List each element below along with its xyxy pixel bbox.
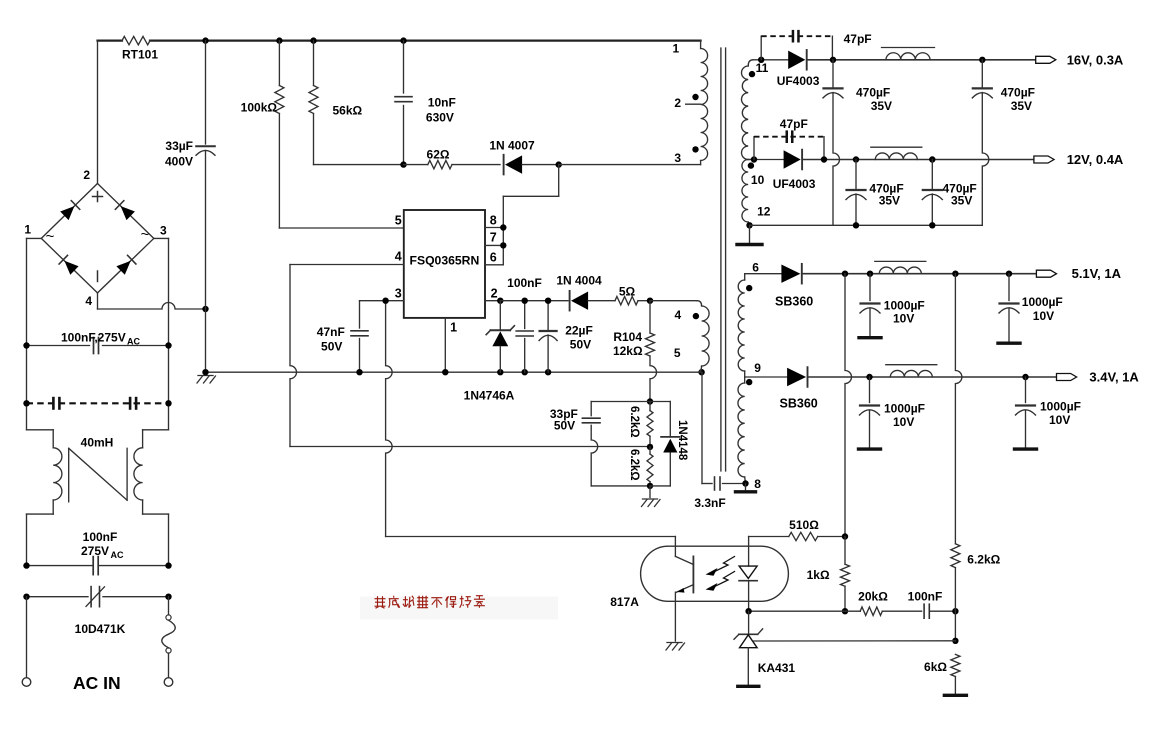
svg-text:50V: 50V [570, 338, 591, 352]
svg-text:35V: 35V [879, 194, 900, 208]
svg-text:817A: 817A [610, 595, 639, 609]
wire pin4 feedback [290, 265, 650, 447]
capacitor 100nF feedback [908, 590, 956, 619]
pin 7 stub [485, 231, 506, 249]
svg-text:6: 6 [490, 251, 497, 265]
resistor RT101 [122, 36, 158, 61]
terminal AC left [22, 678, 31, 687]
svg-text:5Ω: 5Ω [619, 285, 636, 299]
svg-text:6.2kΩ: 6.2kΩ [628, 449, 640, 481]
junction node pin4-aux [647, 298, 653, 304]
resistor 5R [615, 285, 650, 305]
svg-text:4: 4 [675, 308, 682, 322]
winding secondary pins6-9-8 [738, 261, 761, 491]
capacitor 47nF 50V [317, 301, 368, 373]
wire KA431 ref [754, 640, 956, 642]
svg-text:1N 4007: 1N 4007 [489, 139, 535, 153]
wire bridge pin4 to 33uF node [98, 293, 206, 309]
svg-text:16V, 0.3A: 16V, 0.3A [1067, 52, 1124, 67]
ground pin8 [736, 480, 756, 492]
svg-text:2: 2 [83, 168, 90, 182]
capacitor X1 100nF 275VAC [23, 331, 171, 354]
capacitor 10nF 630V [395, 41, 456, 165]
capacitor 1000uF 10V #1 [859, 274, 925, 338]
svg-text:275V: 275V [81, 544, 109, 558]
diode 1N4148 [650, 402, 688, 486]
pin 4 label [395, 250, 402, 264]
svg-text:1000µF: 1000µF [884, 299, 925, 313]
svg-text:6.2kΩ: 6.2kΩ [967, 553, 1000, 567]
capacitor 470uF 35V #4 [922, 160, 976, 226]
junction node 5.1V-fb [842, 271, 848, 277]
svg-text:AC: AC [111, 550, 124, 560]
wire 5.1V to 6.2k [955, 274, 962, 544]
capacitor 470uF 35V #3 [846, 160, 904, 226]
junction node snubber [556, 161, 562, 167]
svg-text:~: ~ [46, 228, 55, 245]
junction rail-pin1 [442, 369, 448, 375]
wire pin2 node [500, 300, 568, 302]
wire 5.1V to 510R [845, 274, 852, 537]
junction node 16V-cap [830, 57, 836, 63]
ground opto emitter [666, 643, 685, 651]
resistor 1k [807, 537, 850, 612]
svg-text:UF4003: UF4003 [777, 74, 820, 88]
svg-text:400V: 400V [165, 155, 193, 169]
capacitor 470uF 35V #2 [972, 60, 1035, 226]
resistor 20k [845, 590, 922, 616]
winding aux pins4-5 [674, 301, 709, 373]
svg-text:4: 4 [395, 250, 402, 264]
diode 1N4004 [556, 274, 615, 311]
junction node 16V-cap2 [979, 57, 985, 63]
svg-text:6kΩ: 6kΩ [924, 660, 947, 674]
terminal 16V output [1036, 52, 1124, 67]
light arrows [706, 557, 735, 591]
svg-text:470µF: 470µF [1001, 86, 1035, 100]
svg-text:10V: 10V [893, 312, 914, 326]
junction node bus-33uF [202, 37, 208, 43]
svg-text:470µF: 470µF [856, 86, 890, 100]
svg-text:1000µF: 1000µF [1022, 295, 1063, 309]
transistor opto phototransistor [675, 537, 693, 642]
svg-text:12V, 0.4A: 12V, 0.4A [1067, 152, 1124, 167]
svg-text:100nF: 100nF [83, 530, 118, 544]
svg-text:1000µF: 1000µF [1040, 400, 1081, 414]
diode SB360 top [775, 264, 813, 309]
svg-text:SB360: SB360 [780, 397, 818, 411]
junction node 12V-diode [821, 156, 827, 162]
resistor 100k [241, 41, 404, 228]
inductor 16V filter [882, 48, 935, 60]
svg-text:11: 11 [756, 61, 769, 75]
terminal 3.4V output [1057, 370, 1140, 385]
capacitor 33uF 400V [165, 41, 215, 373]
junction rail-47nF [356, 369, 362, 375]
zener 1N4746A [464, 301, 515, 403]
svg-text:56kΩ: 56kΩ [333, 104, 363, 118]
junction node bus-10nF [400, 37, 406, 43]
junction node fb-6.2k [952, 608, 958, 614]
svg-text:1: 1 [450, 321, 457, 335]
wire fb node down [954, 611, 956, 641]
capacitor 47pF snubber top [761, 30, 871, 60]
diode SB360 bottom [780, 367, 818, 410]
junction node bus-100k [276, 37, 282, 43]
svg-text:100nF: 100nF [507, 276, 542, 290]
svg-text:6: 6 [752, 261, 759, 275]
pin 8 stub [485, 214, 506, 231]
fuse / switch [162, 597, 176, 678]
pin 5 label [395, 214, 402, 228]
svg-text:9: 9 [754, 361, 761, 375]
svg-text:47pF: 47pF [844, 32, 872, 46]
resistor R104 12k [613, 301, 657, 402]
svg-text:10V: 10V [1049, 413, 1070, 427]
svg-text:630V: 630V [426, 111, 454, 125]
diode UF4003 top [777, 50, 820, 88]
svg-text:1N 4004: 1N 4004 [556, 274, 602, 288]
svg-text:3: 3 [395, 287, 402, 301]
pin 1 wire [445, 318, 457, 372]
capacitor 470uF 35V #1 [823, 60, 892, 226]
capacitor 3.3nF [694, 372, 745, 510]
svg-text:10V: 10V [893, 415, 914, 429]
optocoupler 817A body [610, 546, 788, 609]
svg-text:4: 4 [85, 294, 92, 308]
ground 6k [944, 694, 966, 697]
winding primary pins1-3 [673, 41, 708, 165]
wire bridge pin2 to bus [97, 41, 99, 184]
wire snubber to pins876 [503, 165, 700, 265]
capacitor 47pF snubber mid [754, 117, 824, 160]
junction node 3.4V-cap3 [866, 374, 872, 380]
junction node pin4-33uF [202, 306, 208, 312]
wire pin3 node [360, 301, 676, 537]
junction rail-cap2 [545, 369, 551, 375]
svg-text:50V: 50V [321, 340, 342, 354]
resistor 6.2k lower [628, 447, 653, 486]
svg-text:7: 7 [490, 231, 497, 245]
resistor 56k [309, 41, 404, 165]
svg-text:3.4V, 1A: 3.4V, 1A [1089, 370, 1139, 385]
wire bridge pin3 right [154, 238, 169, 429]
resistor 510R [749, 518, 845, 541]
inductor 3.4V filter [886, 365, 937, 377]
wire aux top [650, 300, 697, 302]
led opto LED [739, 537, 757, 612]
resistor 6.2k sense [951, 544, 1001, 611]
svg-text:47nF: 47nF [317, 325, 345, 339]
junction node ref-6k [952, 638, 958, 644]
svg-text:6.2kΩ: 6.2kΩ [628, 406, 640, 438]
svg-text:KA431: KA431 [758, 661, 796, 675]
svg-text:2: 2 [674, 96, 681, 110]
svg-text:1kΩ: 1kΩ [807, 568, 830, 582]
shunt-regulator KA431 [734, 611, 795, 685]
svg-text:10D471K: 10D471K [75, 622, 126, 636]
svg-text:1N4746A: 1N4746A [464, 389, 515, 403]
svg-text:510Ω: 510Ω [789, 518, 819, 532]
pin 3 label [395, 287, 402, 301]
capacitor 1000uF 10V #3 [859, 377, 925, 449]
svg-text:1000µF: 1000µF [884, 402, 925, 416]
svg-text:3.3nF: 3.3nF [694, 496, 725, 510]
wire 5.1V row [745, 273, 1037, 275]
svg-text:AC IN: AC IN [73, 673, 121, 693]
svg-text:10V: 10V [1033, 309, 1054, 323]
wire primary ground rail [206, 371, 702, 373]
capacitor 100nF (Vcc) [507, 276, 542, 372]
ground divider [642, 486, 661, 507]
resistor 6k [924, 654, 960, 694]
svg-text:5.1V, 1A: 5.1V, 1A [1072, 266, 1122, 281]
svg-text:8: 8 [490, 214, 497, 228]
svg-text:2: 2 [491, 287, 498, 301]
varistor 10D471K [23, 587, 171, 636]
svg-text:35V: 35V [1011, 99, 1032, 113]
terminal 5.1V output [1036, 266, 1121, 281]
capacitor 33pF 50V [550, 402, 650, 486]
junction node 3.4V-cap4 [1022, 374, 1028, 380]
svg-text:UF4003: UF4003 [773, 177, 816, 191]
wire opto cathode line [749, 610, 845, 612]
svg-text:100nF,275V: 100nF,275V [61, 331, 126, 345]
capacitor 22uF 50V [539, 298, 593, 373]
capacitor X2 100nF 275VAC [23, 530, 171, 575]
capacitor 1000uF 10V #4 [1015, 377, 1081, 449]
svg-text:10: 10 [751, 173, 765, 187]
junction node LED cathode [745, 608, 751, 614]
junction rail-aux [698, 369, 704, 375]
junction node 5.1V-cap2 [1006, 271, 1012, 277]
junction node pin10 [751, 156, 757, 162]
junction node 510R-1k [842, 533, 848, 539]
svg-text:5: 5 [674, 346, 681, 360]
resistor 62R [404, 148, 501, 169]
junction node 62R-10nF [400, 161, 406, 167]
svg-text:FSQ0365RN: FSQ0365RN [410, 254, 480, 268]
svg-text:50V: 50V [554, 419, 575, 433]
watermark red text [360, 596, 558, 620]
op-amp U1 FSQ0365RN [404, 210, 485, 318]
wire 16V-12V return rail [750, 222, 983, 228]
junction node divider bottom [647, 483, 653, 489]
junction node 12V-cap4 [929, 156, 935, 162]
junction node pin3 [382, 298, 388, 304]
svg-text:SB360: SB360 [775, 295, 813, 309]
wire 12V row [748, 159, 1034, 161]
transformer core [721, 48, 726, 471]
svg-text:20kΩ: 20kΩ [858, 590, 888, 604]
svg-text:1: 1 [673, 41, 680, 55]
svg-text:62Ω: 62Ω [427, 148, 450, 162]
capacitor 1000uF 10V #2 [998, 274, 1063, 344]
wire divider top [591, 401, 670, 403]
junction rail-zener [497, 369, 503, 375]
svg-text:5: 5 [395, 214, 402, 228]
wire 16V row [753, 59, 1036, 61]
svg-text:12kΩ: 12kΩ [613, 344, 643, 358]
bridge rectifier [24, 168, 167, 308]
pin 6 stub [485, 251, 503, 265]
junction node pin11 [758, 57, 764, 63]
label AC IN [73, 673, 121, 693]
junction rail-cap1 [522, 369, 528, 375]
svg-text:40mH: 40mH [81, 436, 114, 450]
inductor 40mH common-mode choke [27, 430, 169, 566]
junction node 5.1V-sense [952, 271, 958, 277]
svg-text:22µF: 22µF [565, 324, 593, 338]
svg-text:100kΩ: 100kΩ [241, 101, 278, 115]
junction rail-33uF [202, 369, 208, 375]
svg-text:3: 3 [160, 224, 167, 238]
svg-text:12: 12 [757, 204, 771, 218]
svg-text:1N4148: 1N4148 [676, 420, 688, 461]
junction node divider top [647, 398, 653, 404]
svg-text:8: 8 [754, 477, 761, 491]
resistor 6.2k upper [628, 402, 653, 447]
diode UF4003 mid [773, 150, 816, 191]
inductor 5.1V filter [875, 261, 926, 273]
winding secondary pins11-10-12 [742, 60, 771, 226]
wire top DC bus [98, 39, 701, 41]
junction node bus-56k [310, 37, 316, 43]
svg-text:3: 3 [674, 151, 681, 165]
terminal 12V output [1034, 152, 1124, 167]
terminal AC right [164, 678, 173, 687]
diode 1N4007 [489, 139, 558, 175]
svg-text:35V: 35V [951, 194, 972, 208]
svg-text:~: ~ [141, 226, 150, 243]
junction node 1k-20k [842, 608, 848, 614]
svg-text:1: 1 [24, 223, 31, 237]
pin 2 stub [485, 287, 503, 304]
wire 3.4V row [745, 376, 1057, 378]
svg-text:35V: 35V [871, 99, 892, 113]
junction node divider mid [647, 444, 653, 450]
ground primary [197, 372, 216, 383]
junction node 12V-cap3 [853, 156, 859, 162]
ground pin12 [737, 222, 762, 244]
capacitor Y-caps (dashed) [23, 397, 171, 410]
ground KA431 [738, 685, 759, 688]
svg-text:100nF: 100nF [908, 590, 943, 604]
wire bridge pin1 left [27, 238, 42, 429]
svg-text:47pF: 47pF [780, 117, 808, 131]
svg-text:RT101: RT101 [122, 48, 158, 62]
svg-text:33µF: 33µF [165, 139, 193, 153]
svg-text:R104: R104 [613, 330, 642, 344]
svg-text:10nF: 10nF [428, 96, 456, 110]
junction node 5.1V-cap1 [867, 271, 873, 277]
svg-text:AC: AC [127, 337, 140, 347]
wire AC live down [26, 597, 28, 678]
inductor 12V filter [871, 147, 922, 159]
